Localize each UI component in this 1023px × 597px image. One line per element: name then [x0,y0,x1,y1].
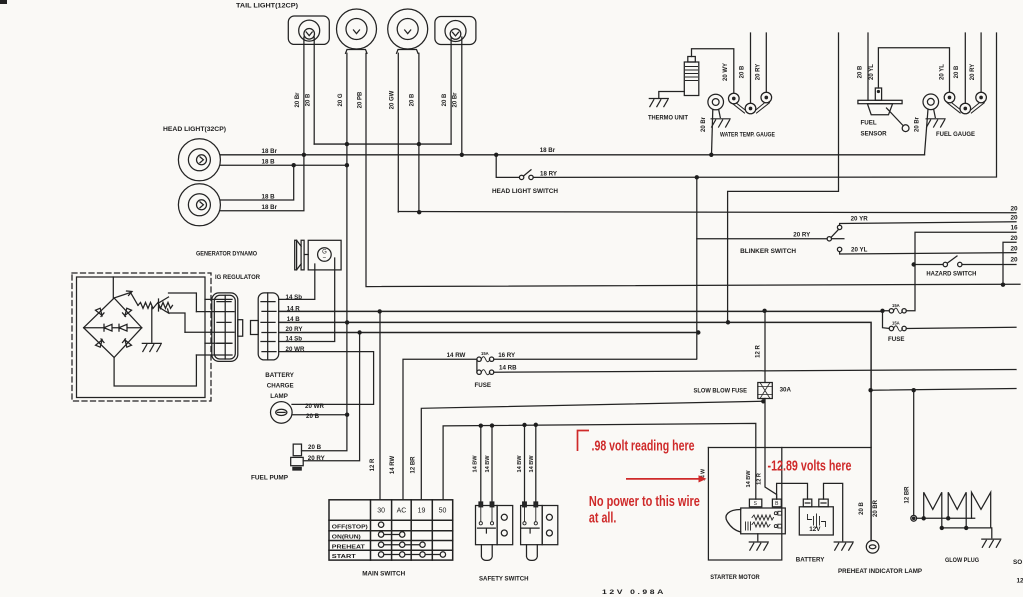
svg-text:12 BR: 12 BR [904,486,910,504]
svg-text:16: 16 [1011,225,1019,232]
svg-text:LAMP: LAMP [270,393,288,400]
svg-text:FUSE: FUSE [475,382,492,389]
svg-text:GLOW PLUG: GLOW PLUG [945,557,979,564]
svg-text:20: 20 [1011,215,1019,222]
svg-text:OFF(STOP): OFF(STOP) [332,524,368,530]
svg-text:14 RB: 14 RB [499,364,517,371]
svg-text:PREHEAT: PREHEAT [332,544,366,550]
svg-text:20 B: 20 B [858,65,864,78]
svg-text:SO: SO [1013,559,1022,566]
svg-text:HEAD LIGHT SWITCH: HEAD LIGHT SWITCH [492,188,558,195]
svg-text:20 B: 20 B [954,65,960,78]
svg-text:30: 30 [377,508,385,515]
svg-text:14 RW: 14 RW [447,352,466,359]
svg-text:20 YR: 20 YR [851,216,869,223]
svg-text:50: 50 [439,508,447,515]
svg-text:20 YL: 20 YL [869,64,875,80]
svg-text:WATER TEMP. GAUGE: WATER TEMP. GAUGE [720,132,776,139]
svg-text:SENSOR: SENSOR [861,131,888,138]
svg-text:START: START [332,554,357,560]
svg-text:14 BW: 14 BW [473,455,479,473]
svg-text:19: 19 [418,508,426,515]
svg-text:14 R: 14 R [287,306,301,313]
svg-text:30A: 30A [780,387,792,394]
svg-text:14 B: 14 B [287,316,301,323]
svg-text:20 GW: 20 GW [390,90,396,109]
svg-text:BATTERY: BATTERY [265,372,294,379]
svg-text:12V: 12V [809,526,821,533]
svg-text:14 BW: 14 BW [485,455,491,473]
svg-text:TAIL LIGHT(12CP): TAIL LIGHT(12CP) [236,3,298,10]
svg-text:20 B: 20 B [308,444,322,451]
svg-text:20 RY: 20 RY [756,64,762,80]
svg-text:15A: 15A [892,321,900,326]
svg-text:MAIN SWITCH: MAIN SWITCH [362,571,405,578]
svg-text:STARTER MOTOR: STARTER MOTOR [710,574,760,581]
svg-text:CHARGE: CHARGE [267,382,294,389]
svg-text:IG REGULATOR: IG REGULATOR [215,274,260,281]
svg-text:20 WY: 20 WY [723,63,729,81]
svg-text:20 RY: 20 RY [308,455,326,462]
svg-text:20 PB: 20 PB [358,91,364,108]
svg-text:20 B: 20 B [410,93,416,106]
svg-text:ON(RUN): ON(RUN) [332,535,361,541]
svg-text:20 B: 20 B [740,65,746,78]
svg-text:20 WR: 20 WR [286,346,305,353]
svg-text:FUEL: FUEL [861,120,877,127]
svg-text:14 Sb: 14 Sb [286,336,303,343]
svg-text:12 R: 12 R [370,458,376,471]
svg-text:20: 20 [1011,206,1019,213]
svg-text:20 YL: 20 YL [940,64,946,80]
svg-text:at all.: at all. [589,509,617,526]
svg-text:20: 20 [1011,257,1019,264]
svg-text:FUEL GAUGE: FUEL GAUGE [936,131,976,138]
svg-text:20 Br: 20 Br [915,116,921,132]
svg-text:20 WR: 20 WR [305,403,324,410]
svg-text:20 YL: 20 YL [851,247,868,254]
svg-text:12V 0.98A: 12V 0.98A [602,589,666,596]
svg-text:12: 12 [1017,578,1023,585]
svg-text:15A: 15A [481,351,489,356]
svg-text:18 B: 18 B [262,159,276,166]
svg-text:14 Sb: 14 Sb [286,294,303,301]
svg-text:18 Br: 18 Br [262,204,278,211]
svg-text:No power to this wire: No power to this wire [589,493,700,510]
svg-text:20 B: 20 B [306,93,312,106]
svg-text:20 Br: 20 Br [295,92,301,108]
svg-text:HAZARD SWITCH: HAZARD SWITCH [926,271,976,278]
svg-text:20 RY: 20 RY [970,64,976,80]
svg-text:SAFETY SWITCH: SAFETY SWITCH [479,576,529,583]
svg-text:15A: 15A [892,303,900,308]
svg-text:20 BR: 20 BR [873,499,879,517]
svg-text:16 RY: 16 RY [498,352,516,359]
svg-text:20 B: 20 B [442,93,448,106]
svg-text:20 Br: 20 Br [701,116,707,132]
svg-text:~: ~ [323,256,327,262]
svg-text:20 Br: 20 Br [453,92,459,108]
svg-text:12 BR: 12 BR [411,456,417,474]
svg-text:20 B: 20 B [859,502,865,515]
svg-text:20: 20 [1011,246,1019,253]
svg-text:AC: AC [397,508,407,515]
svg-text:SLOW BLOW FUSE: SLOW BLOW FUSE [694,387,748,394]
svg-text:FUEL PUMP: FUEL PUMP [251,475,289,482]
svg-text:12 R: 12 R [757,473,763,485]
svg-text:20 B: 20 B [306,413,320,420]
svg-text:THERMO UNIT: THERMO UNIT [648,114,688,121]
svg-text:20 RY: 20 RY [793,231,811,238]
svg-text:14 RW: 14 RW [390,456,396,475]
svg-text:14 BW: 14 BW [746,470,752,488]
svg-text:12 R: 12 R [756,345,762,358]
svg-text:14 BW: 14 BW [529,455,535,473]
svg-text:.98 volt reading here: .98 volt reading here [592,438,695,455]
svg-text:18 RY: 18 RY [540,171,558,178]
svg-text:20 RY: 20 RY [286,326,304,333]
svg-text:18 B: 18 B [262,194,276,201]
svg-text:HEAD LIGHT(32CP): HEAD LIGHT(32CP) [163,126,226,133]
svg-text:20: 20 [1011,235,1019,242]
svg-text:PREHEAT INDICATOR LAMP: PREHEAT INDICATOR LAMP [838,568,922,575]
svg-text:FUSE: FUSE [888,336,905,343]
svg-text:14 BW: 14 BW [517,455,523,473]
svg-text:BATTERY: BATTERY [796,557,825,564]
svg-text:GENERATOR DYNAMO: GENERATOR DYNAMO [196,251,257,258]
svg-text:20 G: 20 G [338,93,344,106]
svg-text:18 Br: 18 Br [540,147,556,154]
svg-text:18 Br: 18 Br [262,148,278,155]
svg-text:BLINKER SWITCH: BLINKER SWITCH [740,248,796,255]
svg-text:-12.89 volts here: -12.89 volts here [768,457,852,474]
